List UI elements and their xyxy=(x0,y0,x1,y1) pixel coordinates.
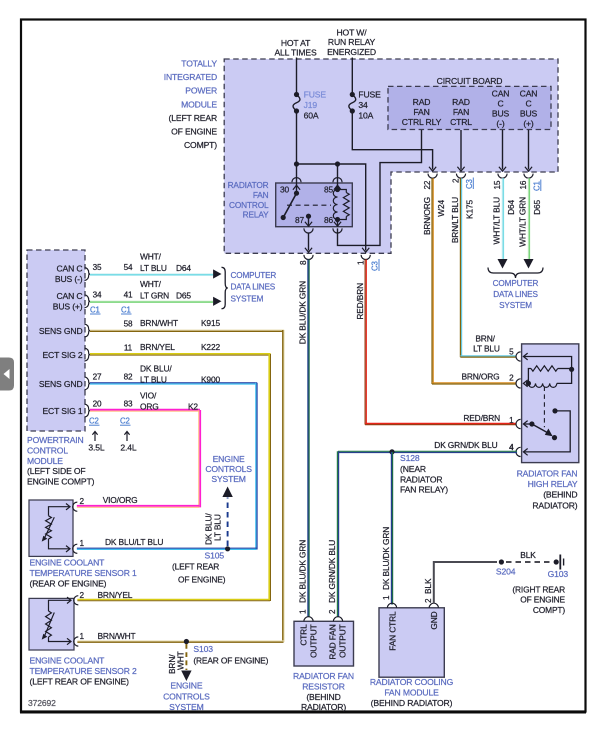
high relay pin 2 terminal xyxy=(509,374,528,388)
sensor pin 1 label + DK BLU/LT BLU xyxy=(80,537,164,548)
svg-text:RADIATOR FAN: RADIATOR FAN xyxy=(517,469,578,479)
left side navigation tab xyxy=(0,358,14,391)
svg-text:W24: W24 xyxy=(436,200,446,217)
svg-text:K175: K175 xyxy=(465,200,475,219)
svg-text:DK BLU/DK GRN: DK BLU/DK GRN xyxy=(381,527,391,590)
svg-text:BRN/WHT: BRN/WHT xyxy=(140,318,178,328)
wire K175 BRN/LT BLU: TIPM pin 2 to high relay pin 5 xyxy=(461,178,463,357)
wire D65 WHT/LT GRN: TIPM pin 16 to computer data lines xyxy=(528,178,530,260)
PCM pin 20 (3.5L) xyxy=(93,400,102,409)
svg-text:D64: D64 xyxy=(176,263,191,273)
svg-text:DATA LINES: DATA LINES xyxy=(231,283,276,292)
relay K1: radiator fan control relay box xyxy=(276,183,353,227)
svg-text:CAN: CAN xyxy=(492,89,510,99)
svg-text:82: 82 xyxy=(124,372,133,381)
label 1 DK BLU/DK GRN (at fan module) xyxy=(381,527,391,600)
svg-text:C3: C3 xyxy=(371,261,380,271)
PCM pin 54 (2.4L) xyxy=(124,263,133,272)
PCM pin label: ECT SIG 2 xyxy=(42,350,82,360)
relay pin 85 terminal xyxy=(324,164,342,195)
svg-text:DATA LINES: DATA LINES xyxy=(493,290,538,299)
module: radiator cooling fan module box xyxy=(379,608,444,677)
svg-text:ECT SIG 2: ECT SIG 2 xyxy=(42,350,82,360)
arrow: CAN (+) to computer data lines system (left) xyxy=(213,297,221,306)
PCM connector terminal: CAN C BUS (-) xyxy=(85,268,91,281)
svg-text:2.4L: 2.4L xyxy=(120,443,136,453)
svg-text:TOTALLY: TOTALLY xyxy=(181,59,217,69)
svg-text:2: 2 xyxy=(80,591,85,600)
svg-text:SYSTEM: SYSTEM xyxy=(169,702,203,712)
svg-text:RADIATOR COOLING: RADIATOR COOLING xyxy=(370,677,454,687)
svg-text:MODULE: MODULE xyxy=(181,99,217,109)
svg-text:RESISTOR: RESISTOR xyxy=(302,681,345,691)
svg-text:27: 27 xyxy=(93,372,102,381)
svg-text:CAN: CAN xyxy=(520,89,538,99)
svg-text:RADIATOR): RADIATOR) xyxy=(532,500,577,510)
svg-text:58: 58 xyxy=(124,320,133,329)
svg-text:ALL TIMES: ALL TIMES xyxy=(274,48,317,58)
label 27 82 DK BLU/LT BLU K900 xyxy=(140,364,220,385)
svg-text:WHT/: WHT/ xyxy=(140,279,162,289)
wire D64 WHT/LT BLU: PCM CAN C BUS (-) to computer data lines xyxy=(90,273,213,275)
arrow: CAN C (+) to computer data lines system xyxy=(524,259,534,269)
brace for left computer data lines xyxy=(222,267,228,308)
high relay pin 5 terminal xyxy=(509,348,528,362)
svg-text:C2: C2 xyxy=(89,417,99,426)
svg-text:K2: K2 xyxy=(188,402,198,412)
brace under CAN arrows xyxy=(488,268,543,279)
high relay pin 4 terminal xyxy=(509,443,528,457)
svg-text:(LEFT REAR: (LEFT REAR xyxy=(169,113,217,123)
relay mechanical link (dashed) xyxy=(287,204,331,206)
dashed wire BLK: S204 to ground G103 xyxy=(506,561,552,563)
svg-text:LT BLU: LT BLU xyxy=(140,263,167,273)
svg-text:C3: C3 xyxy=(465,179,474,189)
svg-text:ECT SIG 1: ECT SIG 1 xyxy=(42,406,82,416)
splice S204 xyxy=(496,559,516,576)
svg-text:FUSE: FUSE xyxy=(358,90,381,100)
svg-text:(LEFT REAR OF ENGINE): (LEFT REAR OF ENGINE) xyxy=(30,676,130,686)
PCM pin label: SENS GND (2) xyxy=(39,379,83,389)
svg-text:CIRCUIT BOARD: CIRCUIT BOARD xyxy=(437,76,503,86)
TIPM connector pin 8 xyxy=(299,255,313,265)
svg-text:34: 34 xyxy=(358,100,368,110)
svg-text:OF ENGINE: OF ENGINE xyxy=(171,127,217,137)
svg-text:15: 15 xyxy=(493,180,502,189)
wire RED/BRN: TIPM pin 1 to high relay pin 1 xyxy=(365,260,367,425)
sensor 2 pin 1 label + BRN/WHT xyxy=(80,631,136,641)
wire label RED/BRN (horizontal) + pin 1 xyxy=(463,413,514,425)
svg-text:POWERTRAIN: POWERTRAIN xyxy=(27,435,84,445)
svg-text:FAN: FAN xyxy=(413,107,429,117)
splice S103 xyxy=(184,639,213,654)
svg-text:LT GRN: LT GRN xyxy=(140,291,169,301)
svg-text:LT BLU: LT BLU xyxy=(213,514,223,541)
TIPM connector pin 22 xyxy=(423,174,437,190)
svg-text:83: 83 xyxy=(124,400,133,409)
svg-text:20: 20 xyxy=(93,400,102,409)
svg-text:DK BLU/DK GRN: DK BLU/DK GRN xyxy=(298,281,308,344)
svg-text:BLK: BLK xyxy=(423,578,433,594)
junction at bus / relay 85 xyxy=(335,161,340,166)
svg-text:S128: S128 xyxy=(400,453,420,463)
fuse J19 60A xyxy=(293,90,326,121)
svg-text:G103: G103 xyxy=(548,569,569,579)
wire label WHT/LT GRN D65 xyxy=(518,197,542,247)
resistor pin 2 terminal xyxy=(333,617,342,622)
svg-text:1: 1 xyxy=(356,260,365,265)
svg-text:SYSTEM: SYSTEM xyxy=(499,301,532,310)
svg-text:MODULE: MODULE xyxy=(27,456,63,466)
svg-text:D65: D65 xyxy=(532,200,542,215)
svg-text:2: 2 xyxy=(80,497,85,506)
svg-text:(NEAR: (NEAR xyxy=(400,464,426,474)
wire: relay pin 87 down to TIPM pin 8 exit xyxy=(308,233,310,251)
sensor RT2: engine coolant temperature sensor 2 (thermistor) xyxy=(29,598,74,650)
wire: hot-at-all-times feed down to fuse J19 and bus xyxy=(296,58,298,95)
svg-text:K900: K900 xyxy=(201,375,220,385)
svg-text:30: 30 xyxy=(280,185,290,195)
svg-text:INTEGRATED: INTEGRATED xyxy=(164,72,217,82)
wire K222 BRN/YEL: PCM ECT SIG 2 to ECT sensor 2 pin 2 xyxy=(90,353,271,355)
splice S128 xyxy=(389,449,419,463)
label: (LEFT REAR OF ENGINE) at S105 xyxy=(172,562,226,585)
svg-text:CAN C: CAN C xyxy=(57,291,83,301)
wire DK BLU/DK GRN: S128 down to fan module FAN CTRL pin 1 xyxy=(390,452,392,605)
wire: fuse J19 to bus junction xyxy=(296,111,298,164)
PCM pin 41 (2.4L) xyxy=(124,290,133,299)
svg-text:CONTROL: CONTROL xyxy=(229,200,269,210)
svg-text:CONTROL: CONTROL xyxy=(27,445,68,455)
PCM pin 27 (3.5L) xyxy=(93,372,102,381)
TIPM connector pin 1 / C3 xyxy=(356,255,379,271)
svg-text:ENGINE: ENGINE xyxy=(170,681,202,691)
svg-text:2: 2 xyxy=(452,178,461,183)
wire K2 VIO/ORG: PCM ECT SIG 1 to ECT sensor 1 pin 2 xyxy=(90,409,200,411)
svg-text:ENGINE COOLANT: ENGINE COOLANT xyxy=(30,656,106,666)
fan module pin 1 terminal xyxy=(387,603,396,608)
svg-text:RADIATOR FAN: RADIATOR FAN xyxy=(293,671,354,681)
engine variant arrow 2.4L xyxy=(120,432,136,453)
svg-text:ENERGIZED: ENERGIZED xyxy=(327,47,376,57)
svg-text:22: 22 xyxy=(423,180,432,189)
svg-text:TEMPERATURE SENSOR 2: TEMPERATURE SENSOR 2 xyxy=(30,666,138,676)
ground G103 xyxy=(548,555,569,580)
wire DK BLU/DK GRN: TIPM pin 8 (relay 87) down to resistor CTRL OUTPUT pin 1 xyxy=(307,260,309,617)
svg-text:COMPUTER: COMPUTER xyxy=(231,271,277,280)
svg-text:C2: C2 xyxy=(120,417,130,426)
svg-text:35: 35 xyxy=(93,263,102,272)
resistor pin 1 terminal xyxy=(304,617,313,622)
label WHT/LT GRN D65 xyxy=(140,279,191,301)
label 58 BRN/WHT K915 xyxy=(140,318,220,328)
svg-text:GND: GND xyxy=(429,611,439,629)
svg-text:(BEHIND: (BEHIND xyxy=(543,490,577,500)
fan module pin 2 terminal xyxy=(429,603,438,608)
resistor pin label CTRL OUTPUT xyxy=(299,624,319,658)
PCM pin 82 (2.4L) xyxy=(124,372,133,381)
label 20 83 VIO/ORG K2 xyxy=(140,391,198,412)
svg-text:BUS: BUS xyxy=(492,109,510,119)
svg-text:11: 11 xyxy=(124,344,133,353)
PCM connector terminal: SENS GND 2 xyxy=(85,377,91,390)
svg-text:SYSTEM: SYSTEM xyxy=(211,474,245,484)
svg-text:WHT/: WHT/ xyxy=(140,252,162,262)
relay pin 30 terminal (wire drop, connector arc, arrow) xyxy=(280,164,301,196)
label DK GRN/DK BLU 4 (horizontal) xyxy=(434,440,514,452)
svg-text:10A: 10A xyxy=(358,110,373,120)
wire BLK: fan module GND up to S204 xyxy=(434,562,497,604)
wire: hot-w/run-relay feed down to fuse 34 xyxy=(351,58,353,95)
svg-text:(LEFT SIDE OF: (LEFT SIDE OF xyxy=(27,466,86,476)
svg-text:D64: D64 xyxy=(506,200,516,215)
svg-text:1: 1 xyxy=(299,609,308,614)
wire D64 WHT/LT BLU: TIPM pin 15 to computer data lines xyxy=(502,178,504,260)
svg-text:60A: 60A xyxy=(304,110,319,120)
svg-text:HIGH RELAY: HIGH RELAY xyxy=(528,479,578,489)
svg-text:86: 86 xyxy=(324,215,334,225)
svg-text:D65: D65 xyxy=(176,291,191,301)
high relay pin 1 terminal xyxy=(516,419,528,428)
svg-text:1: 1 xyxy=(80,539,85,548)
PCM connector terminal: CAN C BUS (+) xyxy=(85,295,91,308)
PCM pin 83 (2.4L) xyxy=(124,400,133,409)
svg-text:BUS (-): BUS (-) xyxy=(55,274,83,284)
svg-text:DK BLU/LT BLU: DK BLU/LT BLU xyxy=(105,537,163,547)
svg-text:LT BLU: LT BLU xyxy=(473,344,500,354)
svg-text:S103: S103 xyxy=(193,644,213,654)
PCM connector terminal: SENS GND xyxy=(85,324,91,337)
PCM connector ref C2 (3.5L) xyxy=(89,417,100,426)
resistor module: radiator fan resistor box xyxy=(294,621,354,666)
svg-text:COMPUTER: COMPUTER xyxy=(493,279,539,288)
svg-text:RADIATOR): RADIATOR) xyxy=(301,702,346,712)
label 2 BLK (vertical) xyxy=(423,578,433,603)
svg-text:8: 8 xyxy=(299,260,308,265)
svg-text:C: C xyxy=(525,99,531,109)
svg-text:BRN/: BRN/ xyxy=(475,334,495,344)
svg-text:(RIGHT REAR: (RIGHT REAR xyxy=(512,584,565,594)
svg-text:(REAR OF ENGINE): (REAR OF ENGINE) xyxy=(30,578,107,588)
svg-text:RELAY: RELAY xyxy=(243,210,269,220)
svg-text:FAN MODULE: FAN MODULE xyxy=(384,687,439,697)
svg-text:OF ENGINE: OF ENGINE xyxy=(520,595,565,605)
svg-text:2: 2 xyxy=(424,598,433,603)
relay pin 86 terminal xyxy=(324,215,342,233)
wire label BRN/ORG W24 xyxy=(422,197,446,235)
junction: resistor/coil/pin5 xyxy=(569,367,574,372)
high relay internals: pin5 feed xyxy=(523,357,571,370)
svg-text:RED/BRN: RED/BRN xyxy=(355,283,365,320)
PCM pin label: CAN C BUS (+) xyxy=(53,291,83,312)
svg-text:BRN/LT BLU: BRN/LT BLU xyxy=(450,197,460,243)
svg-text:4: 4 xyxy=(509,443,514,452)
svg-text:DK BLU/: DK BLU/ xyxy=(140,364,172,374)
splice S105 xyxy=(205,546,231,560)
svg-text:WHT/LT BLU: WHT/LT BLU xyxy=(492,197,502,245)
TIPM connector pin 15 xyxy=(493,174,507,190)
wire DK GRN/DK BLU: high relay pin 4 to S128 and resistor RAD FAN OUTPUT pin 2 xyxy=(338,450,517,452)
relay coil parallel resistor xyxy=(338,190,350,220)
svg-text:BRN/YEL: BRN/YEL xyxy=(98,590,133,600)
svg-text:OUTPUT: OUTPUT xyxy=(338,624,348,658)
svg-text:54: 54 xyxy=(124,263,133,272)
wire W24 BRN/ORG: TIPM pin 22 to high relay pin 2 xyxy=(432,178,434,384)
wire K900 DK BLU/LT BLU: PCM SENS GND to S105 and ECT sensor 1 pin 1 xyxy=(90,382,257,384)
PCM pin 58 xyxy=(124,320,133,329)
svg-text:CTRL: CTRL xyxy=(299,624,309,646)
module U2: powertrain control module (dashed box) xyxy=(27,250,85,431)
svg-text:CONTROLS: CONTROLS xyxy=(163,691,210,701)
svg-text:VIO/: VIO/ xyxy=(140,391,157,401)
svg-text:HOT AT: HOT AT xyxy=(281,38,311,48)
sensor 2 pin 2 label + BRN/YEL xyxy=(80,590,133,600)
svg-text:K915: K915 xyxy=(201,318,220,328)
svg-text:K222: K222 xyxy=(201,342,220,352)
circuit board (dashed sub-box inside TIPM) xyxy=(388,86,551,129)
module U1: totally integrated power module (L-shaped dashed box) xyxy=(224,59,558,253)
wire: circuit board RAD FAN CTRL down to TIPM pin 2 exit xyxy=(460,130,462,170)
svg-text:RED/BRN: RED/BRN xyxy=(463,413,500,423)
engine variant arrow 3.5L xyxy=(88,432,104,453)
svg-text:C: C xyxy=(497,99,503,109)
svg-text:41: 41 xyxy=(124,290,133,299)
svg-text:COMPT): COMPT) xyxy=(533,605,565,615)
svg-text:1: 1 xyxy=(80,632,85,641)
label 11 BRN/YEL K222 xyxy=(140,342,220,352)
label 2 DK GRN/DK BLU (at resistor) xyxy=(327,540,337,614)
svg-text:5: 5 xyxy=(509,348,514,357)
wire: circuit board CAN C BUS (+) down to TIPM pin 16 exit xyxy=(528,130,530,170)
svg-text:BRN/ORG: BRN/ORG xyxy=(461,372,499,382)
wire K915 BRN/WHT: PCM SENS GND to S103 and ECT sensor 2 pin 1 xyxy=(90,329,284,331)
svg-text:ENGINE: ENGINE xyxy=(213,454,245,464)
svg-text:16: 16 xyxy=(519,180,528,189)
svg-text:LT BLU: LT BLU xyxy=(140,375,167,385)
svg-text:POWER: POWER xyxy=(185,86,217,96)
label WHT/LT BLU D64 xyxy=(140,252,191,274)
svg-text:BUS (+): BUS (+) xyxy=(53,302,83,312)
svg-text:RUN RELAY: RUN RELAY xyxy=(328,37,376,47)
svg-text:ORG: ORG xyxy=(140,402,159,412)
PCM pin label: ECT SIG 1 xyxy=(42,406,82,416)
high relay internal resistor xyxy=(528,366,571,384)
svg-text:C1: C1 xyxy=(121,305,131,314)
arrow: CAN C (-) to computer data lines system xyxy=(498,259,508,269)
svg-text:J19: J19 xyxy=(304,100,318,110)
svg-text:RAD FAN: RAD FAN xyxy=(328,624,338,659)
svg-text:C1: C1 xyxy=(90,305,100,314)
relay pin 87 terminal xyxy=(295,214,313,233)
svg-text:ENGINE COOLANT: ENGINE COOLANT xyxy=(30,558,106,568)
relay K2: radiator fan high relay box xyxy=(522,344,579,463)
svg-text:SENS GND: SENS GND xyxy=(39,326,83,336)
wire: circuit board CAN C BUS (-) down to TIPM pin 15 exit xyxy=(502,130,504,170)
label: (RIGHT REAR OF ENGINE COMPT) xyxy=(512,584,565,614)
svg-text:WHT/LT GRN: WHT/LT GRN xyxy=(518,197,528,247)
svg-text:FAN: FAN xyxy=(453,107,469,117)
svg-text:(BEHIND RADIATOR): (BEHIND RADIATOR) xyxy=(371,698,453,708)
svg-text:BLK: BLK xyxy=(520,550,536,560)
TIPM connector pin 16 / C1 xyxy=(519,174,541,191)
svg-text:RAD: RAD xyxy=(413,97,431,107)
svg-text:34: 34 xyxy=(93,290,102,299)
wire: fuse 34 right and down to TIPM pin 22 exit xyxy=(352,111,432,170)
TIPM connector pin 2 / C3 xyxy=(452,174,474,189)
svg-text:SENS GND: SENS GND xyxy=(39,379,83,389)
wire D65 WHT/LT GRN: PCM CAN C BUS (+) to computer data lines xyxy=(90,300,213,302)
svg-text:(BEHIND: (BEHIND xyxy=(306,692,340,702)
svg-text:85: 85 xyxy=(324,185,334,195)
svg-text:FUSE: FUSE xyxy=(304,90,327,100)
svg-text:OUTPUT: OUTPUT xyxy=(309,624,319,658)
PCM pin label: SENS GND xyxy=(39,326,83,336)
sensor pin 2 label + VIO/ORG xyxy=(80,495,138,506)
svg-text:1: 1 xyxy=(509,416,514,425)
PCM pin label: CAN C BUS (-) xyxy=(55,264,83,285)
label BRN/LT BLU at pin 5 xyxy=(473,334,500,354)
wire: relay pin 86 to circuit board RAD FAN CTRL RLY xyxy=(338,130,422,245)
svg-text:BRN/YEL: BRN/YEL xyxy=(140,342,175,352)
relay coil 85-86 xyxy=(333,190,337,220)
svg-text:FAN RELAY): FAN RELAY) xyxy=(400,485,448,495)
high relay coil xyxy=(526,369,572,387)
sensor RT1: engine coolant temperature sensor 1 (thermistor) xyxy=(29,500,73,556)
fuse 34 10A xyxy=(349,90,381,121)
svg-text:VIO/ORG: VIO/ORG xyxy=(103,495,138,505)
high relay switch: pin1 common and arm xyxy=(523,421,557,440)
arrow: CAN (-) to computer data lines system (left) xyxy=(213,269,221,278)
svg-text:TEMPERATURE SENSOR 1: TEMPERATURE SENSOR 1 xyxy=(30,568,138,578)
svg-text:2: 2 xyxy=(509,374,514,383)
junction at fuse J19 / relay 30 xyxy=(294,161,299,166)
svg-text:CTRL RLY: CTRL RLY xyxy=(402,117,442,127)
svg-text:2: 2 xyxy=(328,609,337,614)
svg-text:(LEFT REAR: (LEFT REAR xyxy=(172,562,219,572)
svg-text:HOT W/: HOT W/ xyxy=(337,28,368,38)
PCM pin 35 (3.5L) xyxy=(93,263,102,272)
PCM connector terminal: ECT SIG 2 xyxy=(85,348,91,361)
svg-text:ENGINE COMPT): ENGINE COMPT) xyxy=(27,477,95,487)
svg-text:S105: S105 xyxy=(205,551,225,561)
svg-text:1: 1 xyxy=(382,595,391,600)
high relay upper contact to pin 4 xyxy=(523,408,570,452)
svg-text:CTRL: CTRL xyxy=(450,117,472,127)
svg-text:S204: S204 xyxy=(496,567,516,577)
svg-text:C1: C1 xyxy=(532,181,541,191)
PCM connector terminal: ECT SIG 1 xyxy=(85,404,91,417)
PCM connector ref C1 (3.5L) xyxy=(90,305,101,314)
svg-text:DK GRN/DK BLU: DK GRN/DK BLU xyxy=(327,540,337,603)
svg-text:BRN/ORG: BRN/ORG xyxy=(422,197,432,235)
svg-text:RAD: RAD xyxy=(452,97,470,107)
svg-text:CAN C: CAN C xyxy=(57,264,83,274)
high relay mechanical link (dashed) xyxy=(543,387,545,428)
relay switch arm 30 to 87 xyxy=(281,193,297,220)
svg-text:BUS: BUS xyxy=(520,109,538,119)
svg-text:87: 87 xyxy=(295,215,305,225)
resistor pin label RAD FAN OUTPUT xyxy=(328,624,348,659)
svg-text:RADIATOR: RADIATOR xyxy=(400,474,442,484)
svg-text:WHT: WHT xyxy=(176,651,186,670)
svg-text:DK BLU/DK GRN: DK BLU/DK GRN xyxy=(298,540,308,603)
svg-text:FAN: FAN xyxy=(253,190,269,200)
PCM pin 34 (3.5L) xyxy=(93,290,102,299)
PCM connector ref C1 (2.4L) xyxy=(121,305,132,314)
svg-text:SYSTEM: SYSTEM xyxy=(231,294,264,303)
svg-text:372692: 372692 xyxy=(28,698,56,708)
dashed wire DK BLU/LT BLU from S105 up to engine controls system xyxy=(204,487,233,547)
